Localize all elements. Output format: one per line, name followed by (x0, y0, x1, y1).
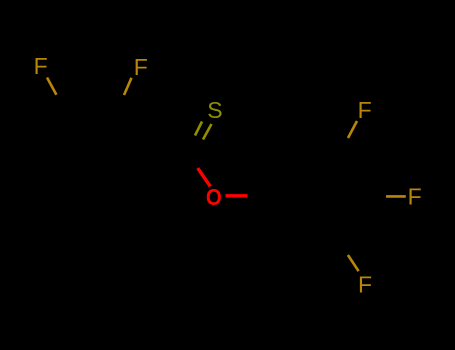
svg-text:F: F (358, 97, 372, 123)
double bond C=S bright half, main line (203, 124, 212, 140)
invisible carbon skeleton: left 2,3-difluorophenyl ring (black on black, as in source) (54, 124, 126, 187)
bond F5-C5' bright half (wire) (348, 255, 359, 271)
invisible carbon skeleton: right 3,4,5-trifluorophenyl ring (black on black, as in source) (271, 158, 358, 233)
svg-text:F: F (408, 184, 422, 210)
bond F4-C4' bright half (wire) (386, 195, 406, 198)
svg-text:F: F (34, 53, 48, 79)
bond C(=S)-O bright half (red, wire) (198, 168, 211, 187)
double bond C=S bright half, second line (195, 122, 202, 136)
svg-text:S: S (207, 97, 222, 123)
bond O-C1' bright half (red, wire) (226, 194, 248, 197)
bond F3-C3' bright half (wire) (348, 121, 357, 138)
svg-text:F: F (134, 54, 148, 80)
svg-text:F: F (358, 272, 372, 298)
svg-text:O: O (206, 183, 222, 210)
bond F1-C3 bright half (wire) (47, 78, 56, 95)
bond F2-C2 bright half (wire) (124, 78, 132, 95)
invisible carbon half-bonds near thiocarbonyl carbon (black on black, as in source) (126, 139, 271, 196)
